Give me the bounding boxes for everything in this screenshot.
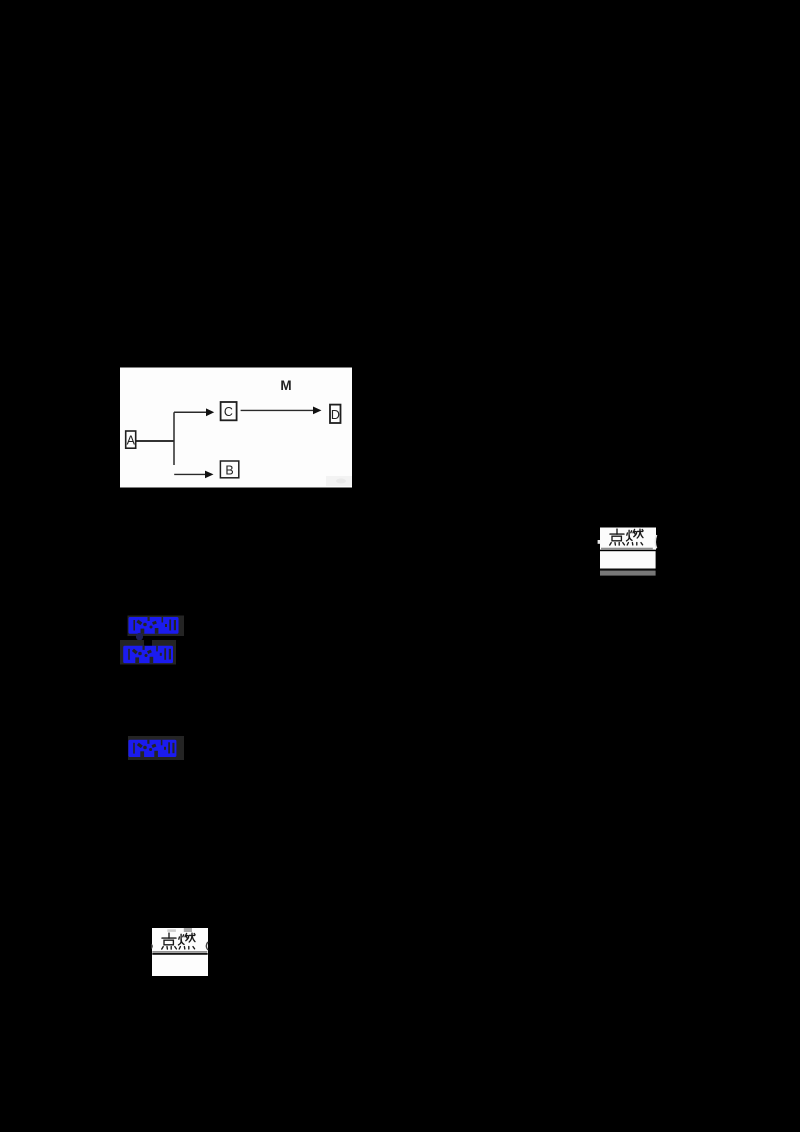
ignite snippet right: white box lower <box>600 551 656 568</box>
analysis black notch <box>144 640 152 648</box>
ignite snippet left: underline thin <box>152 951 207 952</box>
ignite snippet right: left white notch <box>598 540 601 544</box>
svg-text:C: C <box>224 405 233 419</box>
ignite snippet right: white paren <box>655 535 656 548</box>
ignite snippet left: white box <box>152 928 208 976</box>
ignite snippet left: comma at left edge <box>151 944 153 949</box>
ignite snippet right: black separator <box>600 569 655 571</box>
keypoint label gray strip <box>128 616 185 637</box>
diagram faint watermark smudge <box>326 476 352 486</box>
ignite right: glyphs 点燃 <box>610 529 643 545</box>
svg-text:D: D <box>331 408 340 422</box>
analysis label gray strip <box>120 640 176 665</box>
ignite snippet right: white box upper <box>600 528 656 550</box>
box D <box>330 405 341 423</box>
ignite snippet right: gray shadow band <box>600 571 656 576</box>
ignite snippet left: gray patch 2 <box>184 928 192 932</box>
ignite snippet left: dark paren right <box>206 942 208 950</box>
keypoint label blue text 【考点】 <box>129 617 179 634</box>
analysis label blue text 【分析】 <box>123 646 173 663</box>
answer label gray strip <box>128 736 184 760</box>
ignite snippet right: gray underline of 点燃 <box>601 548 653 550</box>
answer label blue text 【解答】 <box>128 740 176 757</box>
box B <box>220 461 238 478</box>
arrow to B <box>174 473 206 475</box>
box C <box>221 402 237 420</box>
wire vertical branch <box>173 412 175 465</box>
ignite snippet left: gray patch 1 <box>167 929 176 932</box>
svg-text:A: A <box>127 434 136 448</box>
arrow C to D <box>241 409 314 411</box>
box A <box>126 431 136 448</box>
ignite left: glyphs 点燃 <box>162 933 195 949</box>
diagram image white background <box>120 368 352 488</box>
wire A to junction <box>136 440 174 442</box>
arrow to C <box>174 411 207 413</box>
svg-text:B: B <box>225 464 233 478</box>
svg-text:M: M <box>280 378 291 393</box>
navy blob between lines <box>136 633 143 641</box>
ignite snippet left: underline thick <box>152 953 207 955</box>
